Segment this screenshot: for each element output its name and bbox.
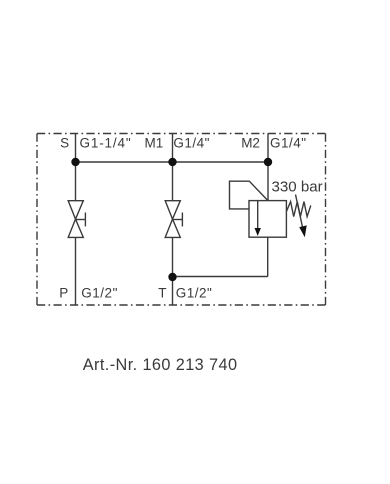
svg-text:P: P <box>59 286 68 301</box>
junction dot at S bus <box>71 158 79 166</box>
wire: T line valve to border <box>172 237 174 305</box>
svg-text:T: T <box>158 286 166 301</box>
wire: drain horizontal to T <box>173 276 268 278</box>
svg-text:G1/4": G1/4" <box>270 135 307 150</box>
svg-text:G1/4": G1/4" <box>173 135 210 150</box>
svg-text:G1/2": G1/2" <box>176 286 213 301</box>
enclosure border (dash-dot subplate boundary) <box>37 134 326 306</box>
svg-text:S: S <box>60 135 69 150</box>
junction dot at M1 bus <box>168 158 176 166</box>
node S port divider line <box>75 134 77 202</box>
junction dot at M2 bus <box>264 158 272 166</box>
svg-text:M1: M1 <box>145 135 164 150</box>
relief valve flow arrow <box>257 201 259 229</box>
adjustment arrow through spring <box>296 195 303 229</box>
svg-text:M2: M2 <box>241 135 260 150</box>
shut-off valve V1 (S to P) <box>68 201 85 238</box>
pilot line flag <box>230 181 268 209</box>
node M1 port divider line <box>172 134 174 202</box>
wire: relief valve drain down <box>267 237 269 276</box>
svg-text:G1-1/4": G1-1/4" <box>80 135 132 150</box>
wire: P line valve to border <box>75 237 77 305</box>
node M2 port divider line <box>267 134 269 201</box>
svg-text:330 bar: 330 bar <box>272 178 323 195</box>
pressure relief valve RV1 body <box>249 201 286 238</box>
spring <box>286 202 310 217</box>
svg-text:Art.-Nr. 160 213 740: Art.-Nr. 160 213 740 <box>83 356 238 374</box>
wire: top bus S-M1-M2 <box>76 161 269 163</box>
junction dot at T drain <box>168 273 176 281</box>
shut-off valve V2 (M1 to T) <box>165 201 182 238</box>
svg-text:G1/2": G1/2" <box>81 286 118 301</box>
